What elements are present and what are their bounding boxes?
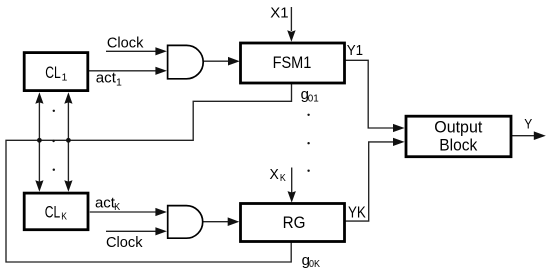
svg-text:act: act [95,195,116,212]
svg-text:CL: CL [45,204,61,222]
svg-text:CL: CL [45,64,61,82]
svg-text:01: 01 [308,94,319,105]
svg-text:0K: 0K [309,259,320,270]
svg-text:Y: Y [524,115,533,131]
svg-text:K: K [114,202,120,213]
svg-text:act: act [96,70,117,87]
svg-text:Block: Block [439,136,478,154]
svg-text:1: 1 [116,76,122,88]
svg-text:Clock: Clock [106,235,143,251]
svg-text:X1: X1 [270,6,288,22]
svg-text:RG: RG [283,214,306,232]
svg-text:Clock: Clock [107,36,144,52]
svg-text:K: K [61,211,67,223]
svg-text:YK: YK [348,205,366,222]
svg-text:FSM1: FSM1 [273,54,312,72]
svg-text:K: K [280,173,286,184]
svg-text:1: 1 [62,71,68,83]
svg-text:Y1: Y1 [347,42,363,59]
svg-text:Output: Output [434,118,482,136]
svg-text:X: X [270,166,279,183]
